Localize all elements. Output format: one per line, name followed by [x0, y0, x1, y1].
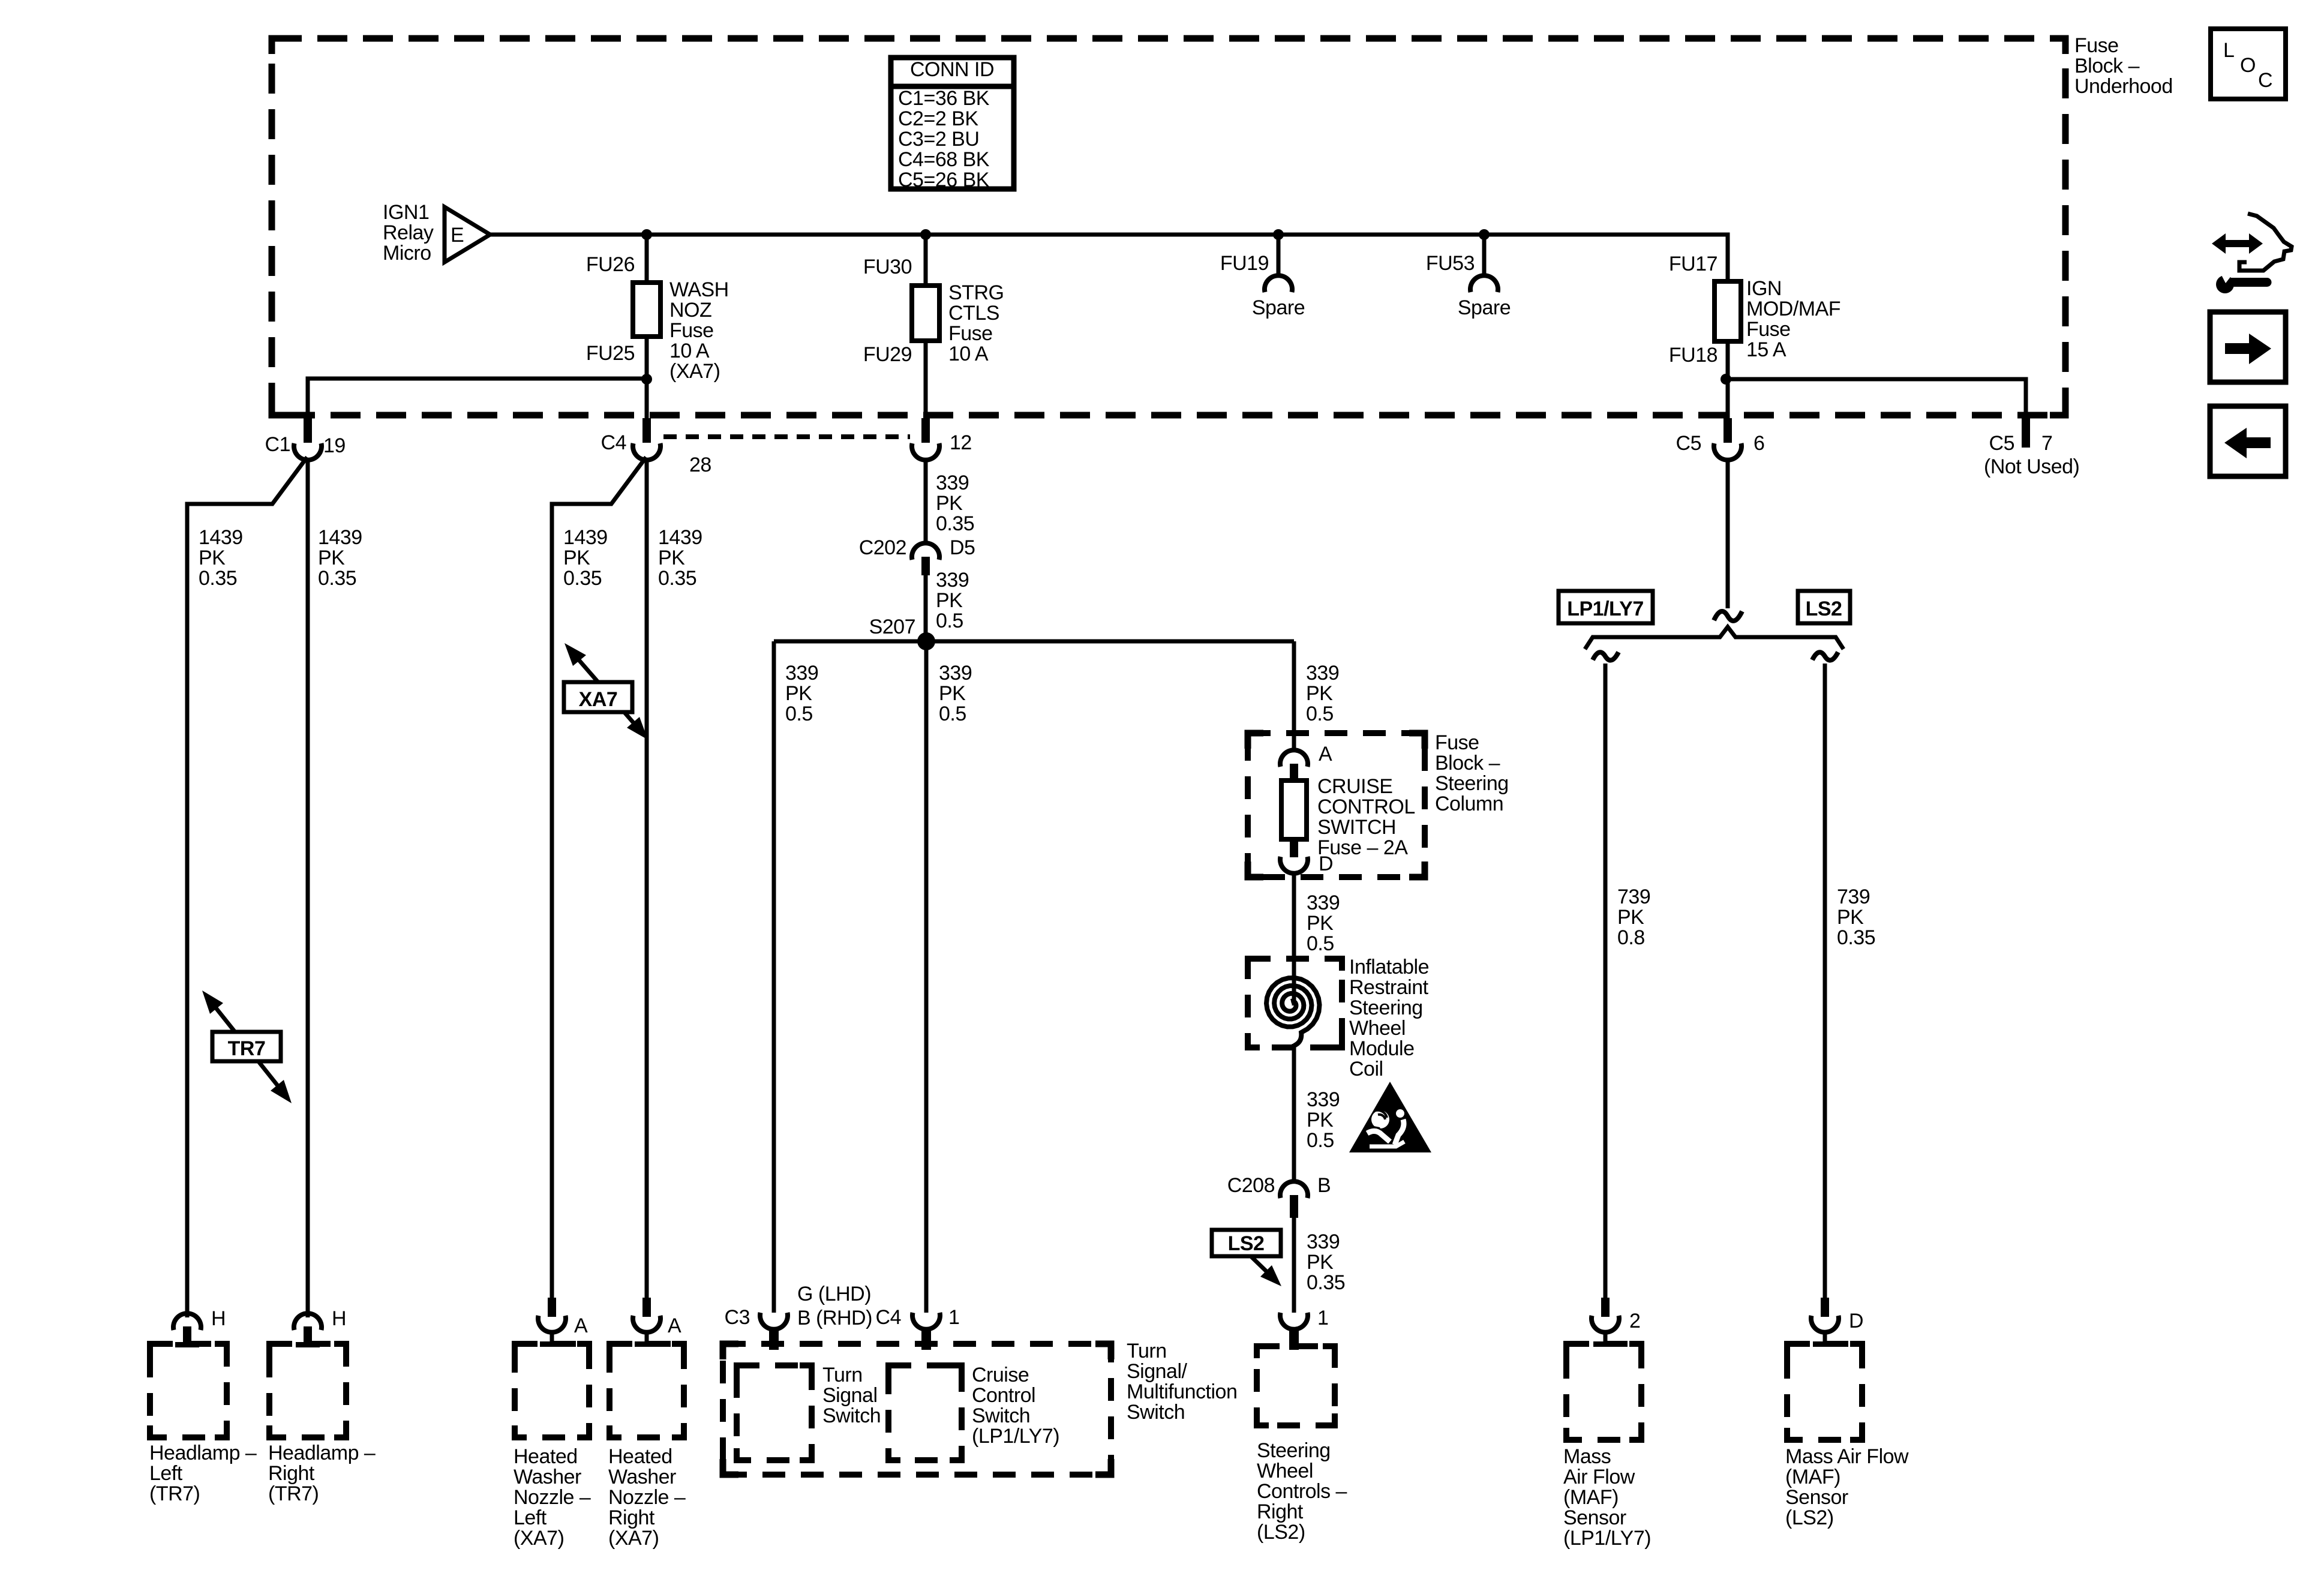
svg-text:Sensor: Sensor [1785, 1486, 1848, 1509]
svg-text:339: 339 [936, 569, 969, 592]
svg-text:Restraint: Restraint [1349, 976, 1429, 999]
svg-text:0.35: 0.35 [318, 567, 356, 590]
svg-text:PK: PK [563, 547, 590, 569]
label C4 1 [876, 1306, 960, 1329]
svg-text:0.5: 0.5 [936, 610, 963, 632]
fuse block underhood dashed box [272, 38, 2065, 415]
svg-text:339: 339 [785, 662, 818, 685]
options bracket [1585, 627, 1843, 649]
label FU18 [1669, 344, 1718, 367]
svg-text:C1=36 BK: C1=36 BK [898, 87, 990, 110]
label FU17 [1669, 253, 1718, 275]
svg-text:Micro: Micro [383, 242, 431, 265]
svg-text:PK: PK [1307, 1251, 1334, 1274]
svg-text:Spare: Spare [1458, 296, 1511, 319]
label 739 PK 0.35 [1837, 885, 1875, 949]
label Inflatable Restraint Steering Wheel Module Coil [1349, 956, 1429, 1080]
label Fuse Block Steering Column [1435, 731, 1509, 815]
svg-text:(MAF): (MAF) [1563, 1486, 1619, 1509]
svg-text:15 A: 15 A [1746, 338, 1786, 361]
connector D MAF LS2 [1811, 1298, 1863, 1347]
LS2 option box [1798, 591, 1850, 623]
svg-text:FU26: FU26 [586, 253, 635, 276]
svg-text:0.35: 0.35 [658, 567, 696, 590]
label FU30 [863, 256, 912, 278]
double arrow icon [2212, 233, 2263, 254]
connector 2 MAF LP1/LY7 [1592, 1298, 1640, 1347]
label C4 28 [601, 431, 711, 476]
svg-text:C3: C3 [725, 1306, 750, 1329]
wire C1 down to headlamp right [306, 458, 310, 1317]
label Turn Signal Switch [822, 1364, 881, 1427]
wire FU17 below fuse [1726, 341, 1730, 418]
svg-text:(TR7): (TR7) [268, 1482, 319, 1505]
svg-text:Switch: Switch [822, 1404, 881, 1427]
LOC icon box [2211, 29, 2286, 99]
label Mass Air Flow (MAF) Sensor (LP1/LY7) [1563, 1445, 1651, 1550]
svg-text:Underhood: Underhood [2074, 75, 2173, 98]
svg-text:339: 339 [939, 662, 972, 685]
wire main IGN1 bus [489, 235, 1728, 281]
svg-text:1439: 1439 [658, 526, 702, 549]
wire FU25 branch [308, 379, 647, 418]
svg-text:2: 2 [1629, 1310, 1640, 1332]
label 339 PK 0.5 above S207 [936, 569, 969, 632]
wire C208 to steering wheel controls [1292, 1218, 1296, 1313]
svg-text:Right: Right [268, 1462, 315, 1485]
label Cruise Control Switch (LP1/LY7) [972, 1364, 1059, 1448]
wire C5-6 down to options bracket [1726, 458, 1730, 608]
svg-text:Fuse: Fuse [1746, 318, 1791, 341]
svg-text:1439: 1439 [563, 526, 608, 549]
node FU25 junction [641, 374, 652, 385]
svg-text:Left: Left [149, 1462, 183, 1485]
LS2 callout box [1212, 1230, 1281, 1256]
wire to MAF LP1/LY7 [1604, 664, 1608, 1316]
svg-text:339: 339 [1307, 891, 1340, 914]
wire S207 left branch to C3 [772, 641, 776, 1313]
label Headlamp Left (TR7) [149, 1442, 257, 1505]
svg-text:Right: Right [1257, 1500, 1304, 1523]
label C5 6 [1676, 432, 1765, 455]
svg-text:PK: PK [936, 492, 963, 515]
connector C202 pin D5 [912, 543, 939, 575]
svg-text:PK: PK [1306, 682, 1333, 705]
svg-text:0.35: 0.35 [1837, 926, 1875, 949]
svg-text:Relay: Relay [383, 221, 434, 244]
svg-text:Block –: Block – [2074, 55, 2140, 77]
steering wheel controls dashed box [1257, 1346, 1335, 1425]
label Fuse Block Underhood [2074, 34, 2173, 98]
wire C202 to S207 [924, 575, 928, 641]
svg-text:SWITCH: SWITCH [1317, 816, 1396, 839]
svg-text:C1: C1 [265, 433, 290, 456]
wire coil to C208 [1292, 1044, 1296, 1182]
svg-text:NOZ: NOZ [669, 299, 711, 322]
svg-text:Controls –: Controls – [1257, 1480, 1347, 1503]
svg-text:XA7: XA7 [579, 688, 618, 711]
svg-text:A: A [668, 1314, 681, 1337]
label 739 PK 0.8 [1617, 885, 1650, 949]
turn signal multifunction switch outer dashed box [723, 1344, 1111, 1475]
svg-text:Steering: Steering [1349, 996, 1423, 1019]
LP1/LY7 option box [1559, 591, 1653, 623]
svg-text:(LP1/LY7): (LP1/LY7) [972, 1425, 1059, 1448]
label 1439 PK 0.35 washer left [563, 526, 608, 590]
label IGN MOD/MAF Fuse 15 A [1746, 277, 1840, 361]
wire C1 jog to headlamp left [187, 457, 307, 1317]
svg-text:(XA7): (XA7) [608, 1527, 659, 1550]
MAF sensor LS2 dashed box [1787, 1344, 1862, 1440]
wire C4 jog to washer left [552, 457, 646, 1316]
label WASH NOZ Fuse 10 A (XA7) [669, 278, 729, 383]
wire FU18 branch to C5-7 [1726, 379, 2026, 418]
panel outline icon [2239, 214, 2292, 271]
inflatable restraint coil dashed box [1248, 959, 1342, 1047]
label Mass Air Flow (MAF) Sensor (LS2) [1785, 1445, 1909, 1529]
headlamp right dashed box [269, 1344, 346, 1437]
svg-text:28: 28 [689, 454, 711, 476]
label IGN1 Relay Micro [383, 201, 434, 265]
svg-text:0.35: 0.35 [1307, 1271, 1345, 1294]
connector C208 pin B [1280, 1181, 1308, 1218]
svg-text:TR7: TR7 [228, 1037, 266, 1060]
svg-text:Headlamp –: Headlamp – [149, 1442, 257, 1464]
label 339 PK 0.5 right branch [1306, 662, 1339, 725]
svg-text:G (LHD): G (LHD) [797, 1283, 871, 1305]
svg-text:0.5: 0.5 [1306, 703, 1334, 725]
label FU53 Spare [1426, 252, 1511, 319]
svg-text:Wheel: Wheel [1349, 1017, 1406, 1040]
svg-text:PK: PK [1307, 1109, 1334, 1131]
svg-text:PK: PK [785, 682, 812, 705]
svg-text:FU18: FU18 [1669, 344, 1718, 367]
svg-text:Heated: Heated [514, 1445, 578, 1468]
svg-text:1439: 1439 [199, 526, 243, 549]
connector H headlamp right [294, 1307, 346, 1347]
svg-text:739: 739 [1837, 885, 1870, 908]
svg-text:C2=2 BK: C2=2 BK [898, 107, 978, 130]
svg-text:B (RHD): B (RHD) [797, 1307, 872, 1329]
svg-text:Fuse: Fuse [1435, 731, 1479, 754]
headlamp left dashed box [150, 1344, 227, 1437]
wire D to coil [1292, 871, 1296, 1005]
svg-text:0.35: 0.35 [563, 567, 602, 590]
label 1439 PK 0.35 washer right [658, 526, 702, 590]
TR7 option box [212, 1032, 281, 1061]
svg-text:Signal/: Signal/ [1127, 1360, 1188, 1383]
svg-text:C5=26 BK: C5=26 BK [898, 169, 990, 191]
svg-text:LS2: LS2 [1806, 598, 1842, 620]
svg-text:PK: PK [1307, 912, 1334, 935]
svg-text:IGN: IGN [1746, 277, 1782, 300]
svg-text:C4=68 BK: C4=68 BK [898, 148, 990, 171]
label Heated Washer Nozzle Left (XA7) [514, 1445, 591, 1550]
svg-text:Signal: Signal [822, 1384, 878, 1407]
fuse FU26 WASH NOZ [633, 283, 660, 337]
svg-text:1439: 1439 [318, 526, 362, 549]
svg-text:D5: D5 [950, 536, 975, 559]
connector C5 pin 6 [1714, 418, 1742, 460]
svg-text:Switch: Switch [1127, 1401, 1185, 1424]
svg-text:FU30: FU30 [863, 256, 912, 278]
wire FU30 drop [924, 235, 928, 286]
connector H headlamp left [173, 1307, 226, 1347]
fuse block steering column dashed box [1248, 733, 1425, 877]
svg-text:0.5: 0.5 [785, 703, 813, 725]
label Turn Signal Multifunction Switch [1127, 1340, 1237, 1424]
svg-text:Mass Air Flow: Mass Air Flow [1785, 1445, 1909, 1468]
svg-text:Spare: Spare [1252, 296, 1305, 319]
svg-text:Fuse: Fuse [948, 322, 993, 345]
fuse FU17 IGN MOD/MAF [1715, 281, 1741, 341]
label C202 D5 [859, 536, 975, 559]
fuse FU30 STRG CTLS [912, 286, 939, 341]
svg-text:Cruise: Cruise [972, 1364, 1029, 1386]
branch squiggle LP1/LY7 [1593, 652, 1619, 661]
forward arrow icon box [2210, 312, 2286, 382]
svg-text:MOD/MAF: MOD/MAF [1746, 298, 1840, 320]
svg-text:FU29: FU29 [863, 343, 912, 366]
svg-text:IGN1: IGN1 [383, 201, 429, 224]
MAF sensor LP1/LY7 dashed box [1566, 1344, 1641, 1440]
label Steering Wheel Controls Right (LS2) [1257, 1439, 1347, 1544]
spare fuse FU53 [1470, 229, 1498, 292]
fuse CRUISE CONTROL SWITCH 2A [1281, 781, 1307, 839]
label FU26 [586, 253, 635, 276]
svg-text:Nozzle –: Nozzle – [514, 1486, 591, 1509]
label C208 B [1227, 1174, 1331, 1197]
svg-text:1: 1 [1317, 1307, 1328, 1329]
svg-text:Multifunction: Multifunction [1127, 1380, 1237, 1403]
wrench icon [2216, 267, 2272, 293]
svg-text:WASH: WASH [669, 278, 729, 301]
svg-text:O: O [2240, 54, 2256, 77]
wire FU26 drop [645, 235, 649, 283]
svg-text:(TR7): (TR7) [149, 1482, 200, 1505]
wire FU30 below fuse [924, 341, 928, 418]
svg-text:D: D [1849, 1310, 1863, 1332]
label 12 [950, 431, 972, 454]
connector D cruise fuse [1280, 839, 1333, 875]
svg-text:C3=2 BU: C3=2 BU [898, 128, 979, 151]
label C1 19 [265, 433, 346, 457]
svg-text:Control: Control [972, 1384, 1035, 1407]
label 339 PK 0.35 above C202 [936, 472, 974, 535]
connector 1 steering wheel controls [1280, 1307, 1328, 1350]
svg-text:C202: C202 [859, 536, 906, 559]
svg-text:Mass: Mass [1563, 1445, 1611, 1468]
svg-text:B: B [1317, 1174, 1331, 1197]
svg-text:Sensor: Sensor [1563, 1506, 1626, 1529]
wire FU26 below fuse [645, 337, 649, 418]
svg-text:CONN ID: CONN ID [910, 58, 994, 81]
op-amp E triangle IGN1 Relay Micro [445, 207, 490, 262]
svg-text:FU53: FU53 [1426, 252, 1475, 275]
coil spiral [1266, 978, 1320, 1046]
back arrow icon box [2210, 406, 2286, 476]
svg-text:(XA7): (XA7) [669, 360, 720, 383]
svg-text:LS2: LS2 [1228, 1232, 1265, 1255]
svg-text:Heated: Heated [608, 1445, 672, 1468]
label FU19 Spare [1220, 252, 1305, 319]
label Heated Washer Nozzle Right (XA7) [608, 1445, 686, 1550]
svg-text:PK: PK [1837, 906, 1864, 929]
svg-text:Block –: Block – [1435, 752, 1500, 775]
svg-text:A: A [1319, 743, 1332, 766]
svg-text:D: D [1319, 852, 1333, 875]
svg-text:S207: S207 [869, 616, 915, 638]
svg-text:PK: PK [936, 589, 963, 612]
svg-text:339: 339 [1306, 662, 1339, 685]
label C3 G (LHD) B (RHD) [725, 1283, 872, 1329]
label 339 PK 0.5 left branch [785, 662, 818, 725]
svg-text:C5: C5 [1989, 432, 2014, 455]
connector C4 pin 1 [912, 1313, 940, 1350]
label FU29 [863, 343, 912, 366]
svg-text:339: 339 [1307, 1230, 1340, 1253]
wire dashed C4-28 link [663, 434, 910, 439]
CONN ID table [891, 58, 1014, 191]
svg-text:Nozzle –: Nozzle – [608, 1486, 686, 1509]
svg-text:10 A: 10 A [669, 340, 710, 362]
svg-text:739: 739 [1617, 885, 1650, 908]
label 339 PK 0.35 [1307, 1230, 1345, 1294]
svg-text:C208: C208 [1227, 1174, 1275, 1197]
svg-text:PK: PK [939, 682, 966, 705]
svg-text:Air Flow: Air Flow [1563, 1466, 1635, 1488]
svg-text:E: E [451, 224, 464, 247]
svg-text:12: 12 [950, 431, 972, 454]
svg-text:LP1/LY7: LP1/LY7 [1567, 598, 1644, 620]
svg-text:FU17: FU17 [1669, 253, 1718, 275]
svg-text:6: 6 [1753, 432, 1764, 455]
SRS warning triangle [1349, 1082, 1431, 1152]
node FU18 junction [1721, 374, 1731, 385]
svg-text:0.8: 0.8 [1617, 926, 1645, 949]
svg-text:Switch: Switch [972, 1404, 1030, 1427]
svg-text:Turn: Turn [822, 1364, 863, 1386]
svg-text:(MAF): (MAF) [1785, 1466, 1840, 1488]
svg-text:10 A: 10 A [948, 343, 989, 365]
svg-text:(XA7): (XA7) [514, 1527, 564, 1550]
label 339 PK 0.5 above coil [1307, 891, 1340, 955]
svg-text:Column: Column [1435, 792, 1503, 815]
svg-text:H: H [332, 1307, 346, 1330]
break squiggle on C5-6 wire [1714, 611, 1742, 621]
connector C3 pin G/B [760, 1313, 788, 1350]
node junction on bus at FU30 [920, 229, 931, 240]
svg-text:C5: C5 [1676, 432, 1701, 455]
svg-text:Steering: Steering [1257, 1439, 1331, 1462]
node junction on bus at FU26 [641, 229, 652, 240]
svg-text:PK: PK [318, 547, 345, 569]
connector A cruise fuse [1280, 743, 1332, 782]
XA7 option box [564, 682, 632, 712]
cruise control switch inner dashed box [888, 1365, 962, 1460]
svg-text:Headlamp –: Headlamp – [268, 1442, 376, 1464]
svg-text:Turn: Turn [1127, 1340, 1167, 1362]
svg-text:CTLS: CTLS [948, 302, 999, 325]
svg-text:0.5: 0.5 [1307, 932, 1334, 955]
washer nozzle right dashed box [609, 1344, 684, 1437]
svg-text:Left: Left [514, 1506, 547, 1529]
label STRG CTLS Fuse 10 A [948, 281, 1004, 365]
svg-text:CRUISE: CRUISE [1317, 775, 1392, 798]
svg-text:339: 339 [936, 472, 969, 494]
svg-text:FU25: FU25 [586, 342, 635, 365]
svg-text:19: 19 [323, 434, 346, 457]
TR7 option arrow [202, 990, 292, 1103]
svg-text:339: 339 [1307, 1088, 1340, 1111]
turn signal switch inner dashed box [737, 1365, 812, 1460]
wire S207 horizontal [774, 640, 1294, 644]
label 1439 PK 0.35 headlamp left [199, 526, 243, 590]
svg-text:(LS2): (LS2) [1257, 1521, 1305, 1544]
svg-text:Fuse: Fuse [669, 319, 714, 342]
spare fuse FU19 [1265, 229, 1292, 292]
svg-text:(Not Used): (Not Used) [1984, 455, 2079, 478]
svg-text:Steering: Steering [1435, 772, 1509, 795]
label FU25 [586, 342, 635, 365]
label 339 PK 0.5 below coil [1307, 1088, 1340, 1152]
XA7 option arrow [565, 643, 648, 740]
svg-text:L: L [2223, 39, 2234, 62]
svg-text:Inflatable: Inflatable [1349, 956, 1429, 978]
branch squiggle LS2 [1812, 652, 1838, 661]
connector C4 pin 28 [633, 418, 660, 460]
svg-text:7: 7 [2041, 432, 2052, 455]
washer nozzle left dashed box [515, 1344, 589, 1437]
label Headlamp Right (TR7) [268, 1442, 376, 1505]
svg-text:1: 1 [948, 1306, 959, 1329]
label CRUISE CONTROL SWITCH Fuse 2A [1317, 775, 1415, 859]
svg-text:A: A [574, 1314, 588, 1337]
connector C1 pin 19 [294, 418, 322, 460]
svg-text:0.5: 0.5 [1307, 1129, 1334, 1152]
node splice S207 [869, 616, 935, 650]
svg-text:CONTROL: CONTROL [1317, 795, 1415, 818]
svg-text:C: C [2258, 69, 2272, 92]
wire to MAF LS2 [1823, 664, 1827, 1316]
label 339 PK 0.5 center branch [939, 662, 972, 725]
connector 12 [912, 418, 939, 460]
svg-text:Washer: Washer [514, 1466, 581, 1488]
dashed box corner marks [150, 38, 2065, 1475]
connector A washer nozzle left [538, 1298, 588, 1347]
svg-text:H: H [211, 1307, 226, 1330]
svg-text:Coil: Coil [1349, 1058, 1383, 1080]
wire 12 to C202 [924, 458, 928, 544]
wire S207 right branch to fuse block steering [1292, 641, 1296, 751]
svg-text:Module: Module [1349, 1037, 1415, 1060]
svg-text:Fuse: Fuse [2074, 34, 2119, 57]
svg-text:Wheel: Wheel [1257, 1460, 1313, 1482]
svg-text:STRG: STRG [948, 281, 1004, 304]
svg-text:C4: C4 [876, 1306, 901, 1329]
svg-text:PK: PK [199, 547, 226, 569]
svg-text:PK: PK [1617, 906, 1644, 929]
connector C5 pin 7 not used [2022, 418, 2030, 448]
svg-text:C4: C4 [601, 431, 626, 454]
label 1439 PK 0.35 headlamp right [318, 526, 362, 590]
label C5 7 (Not Used) [1984, 432, 2079, 478]
svg-text:Right: Right [608, 1506, 655, 1529]
wire C4 down to washer right [645, 458, 649, 1316]
LS2 callout arrow [1251, 1256, 1281, 1286]
svg-text:Washer: Washer [608, 1466, 676, 1488]
svg-text:(LP1/LY7): (LP1/LY7) [1563, 1527, 1651, 1550]
